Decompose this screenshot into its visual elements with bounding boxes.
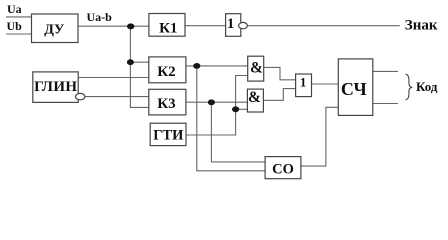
block K1: [149, 14, 185, 37]
wire GLIN inverted output to K3: [85, 96, 149, 98]
block K2: [149, 57, 186, 83]
svg-text:Ub: Ub: [7, 19, 23, 33]
junction node K2 output branch: [193, 63, 200, 69]
junction node K3 output branch: [208, 99, 215, 105]
wire K3 output to AND2: [186, 101, 248, 103]
svg-text:СЧ: СЧ: [341, 79, 367, 99]
wire K2 riser to SO lower input: [197, 66, 265, 171]
svg-text:&: &: [250, 60, 263, 77]
junction node GTI branch: [232, 106, 239, 112]
wire vertical Ua-b bus: [130, 26, 148, 107]
wire K3 riser to SO upper input: [211, 102, 265, 162]
svg-text:ГЛИН: ГЛИН: [34, 79, 77, 95]
wire GTI output riser: [186, 76, 248, 136]
svg-text:1: 1: [227, 16, 235, 32]
block NOT gate 1: [226, 14, 241, 37]
block DU (difference amplifier): [32, 14, 79, 43]
svg-text:Знак: Знак: [405, 18, 438, 34]
svg-text:К2: К2: [157, 64, 175, 80]
wire Ua-b from DU to K1: [78, 25, 149, 27]
block SO (overflow circuit): [265, 157, 301, 179]
block K3: [149, 89, 186, 115]
wire node to K2 upper input: [130, 61, 148, 63]
wire AND1 output to OR gate: [264, 67, 296, 79]
svg-text:Ua-b: Ua-b: [87, 10, 113, 24]
svg-text:Код: Код: [416, 79, 438, 94]
block GTI (clock pulse generator): [150, 123, 186, 145]
block SCh (counter): [338, 59, 373, 116]
svg-text:Ua: Ua: [7, 2, 22, 16]
svg-text:&: &: [248, 89, 261, 106]
gate AND2: [247, 89, 263, 112]
svg-text:К1: К1: [159, 21, 177, 37]
junction node K2 input branch: [127, 59, 134, 65]
wire K2 output to AND1: [186, 65, 248, 67]
wire OR output to SCh: [312, 83, 339, 85]
bubble of GLIN inverted output: [76, 93, 85, 99]
wire GLIN top output to K2: [78, 77, 149, 79]
wire GTI branch to AND2 lower input: [236, 108, 248, 110]
wire input Ub: [6, 33, 32, 35]
svg-text:1: 1: [300, 74, 307, 89]
gate AND1: [248, 56, 264, 81]
wire SCh output bit 1: [373, 70, 398, 72]
svg-text:СО: СО: [272, 161, 294, 177]
gate OR: [296, 74, 312, 97]
wire SCh output bit 2: [373, 103, 398, 105]
wire input Ua: [6, 16, 32, 18]
svg-text:ДУ: ДУ: [44, 23, 64, 38]
svg-text:ГТИ: ГТИ: [153, 128, 184, 144]
wire K1 output to NOT gate: [185, 25, 225, 27]
wire SO output to SCh: [301, 107, 338, 166]
svg-text:К3: К3: [157, 96, 175, 112]
junction node Ua-b: [127, 23, 134, 29]
bubble of NOT gate: [239, 22, 248, 28]
wire NOT output to Znak: [248, 25, 400, 27]
block GLIN (ramp generator): [33, 72, 78, 103]
wire AND2 output to OR gate: [263, 89, 295, 101]
brace for Kod output: [406, 74, 413, 100]
